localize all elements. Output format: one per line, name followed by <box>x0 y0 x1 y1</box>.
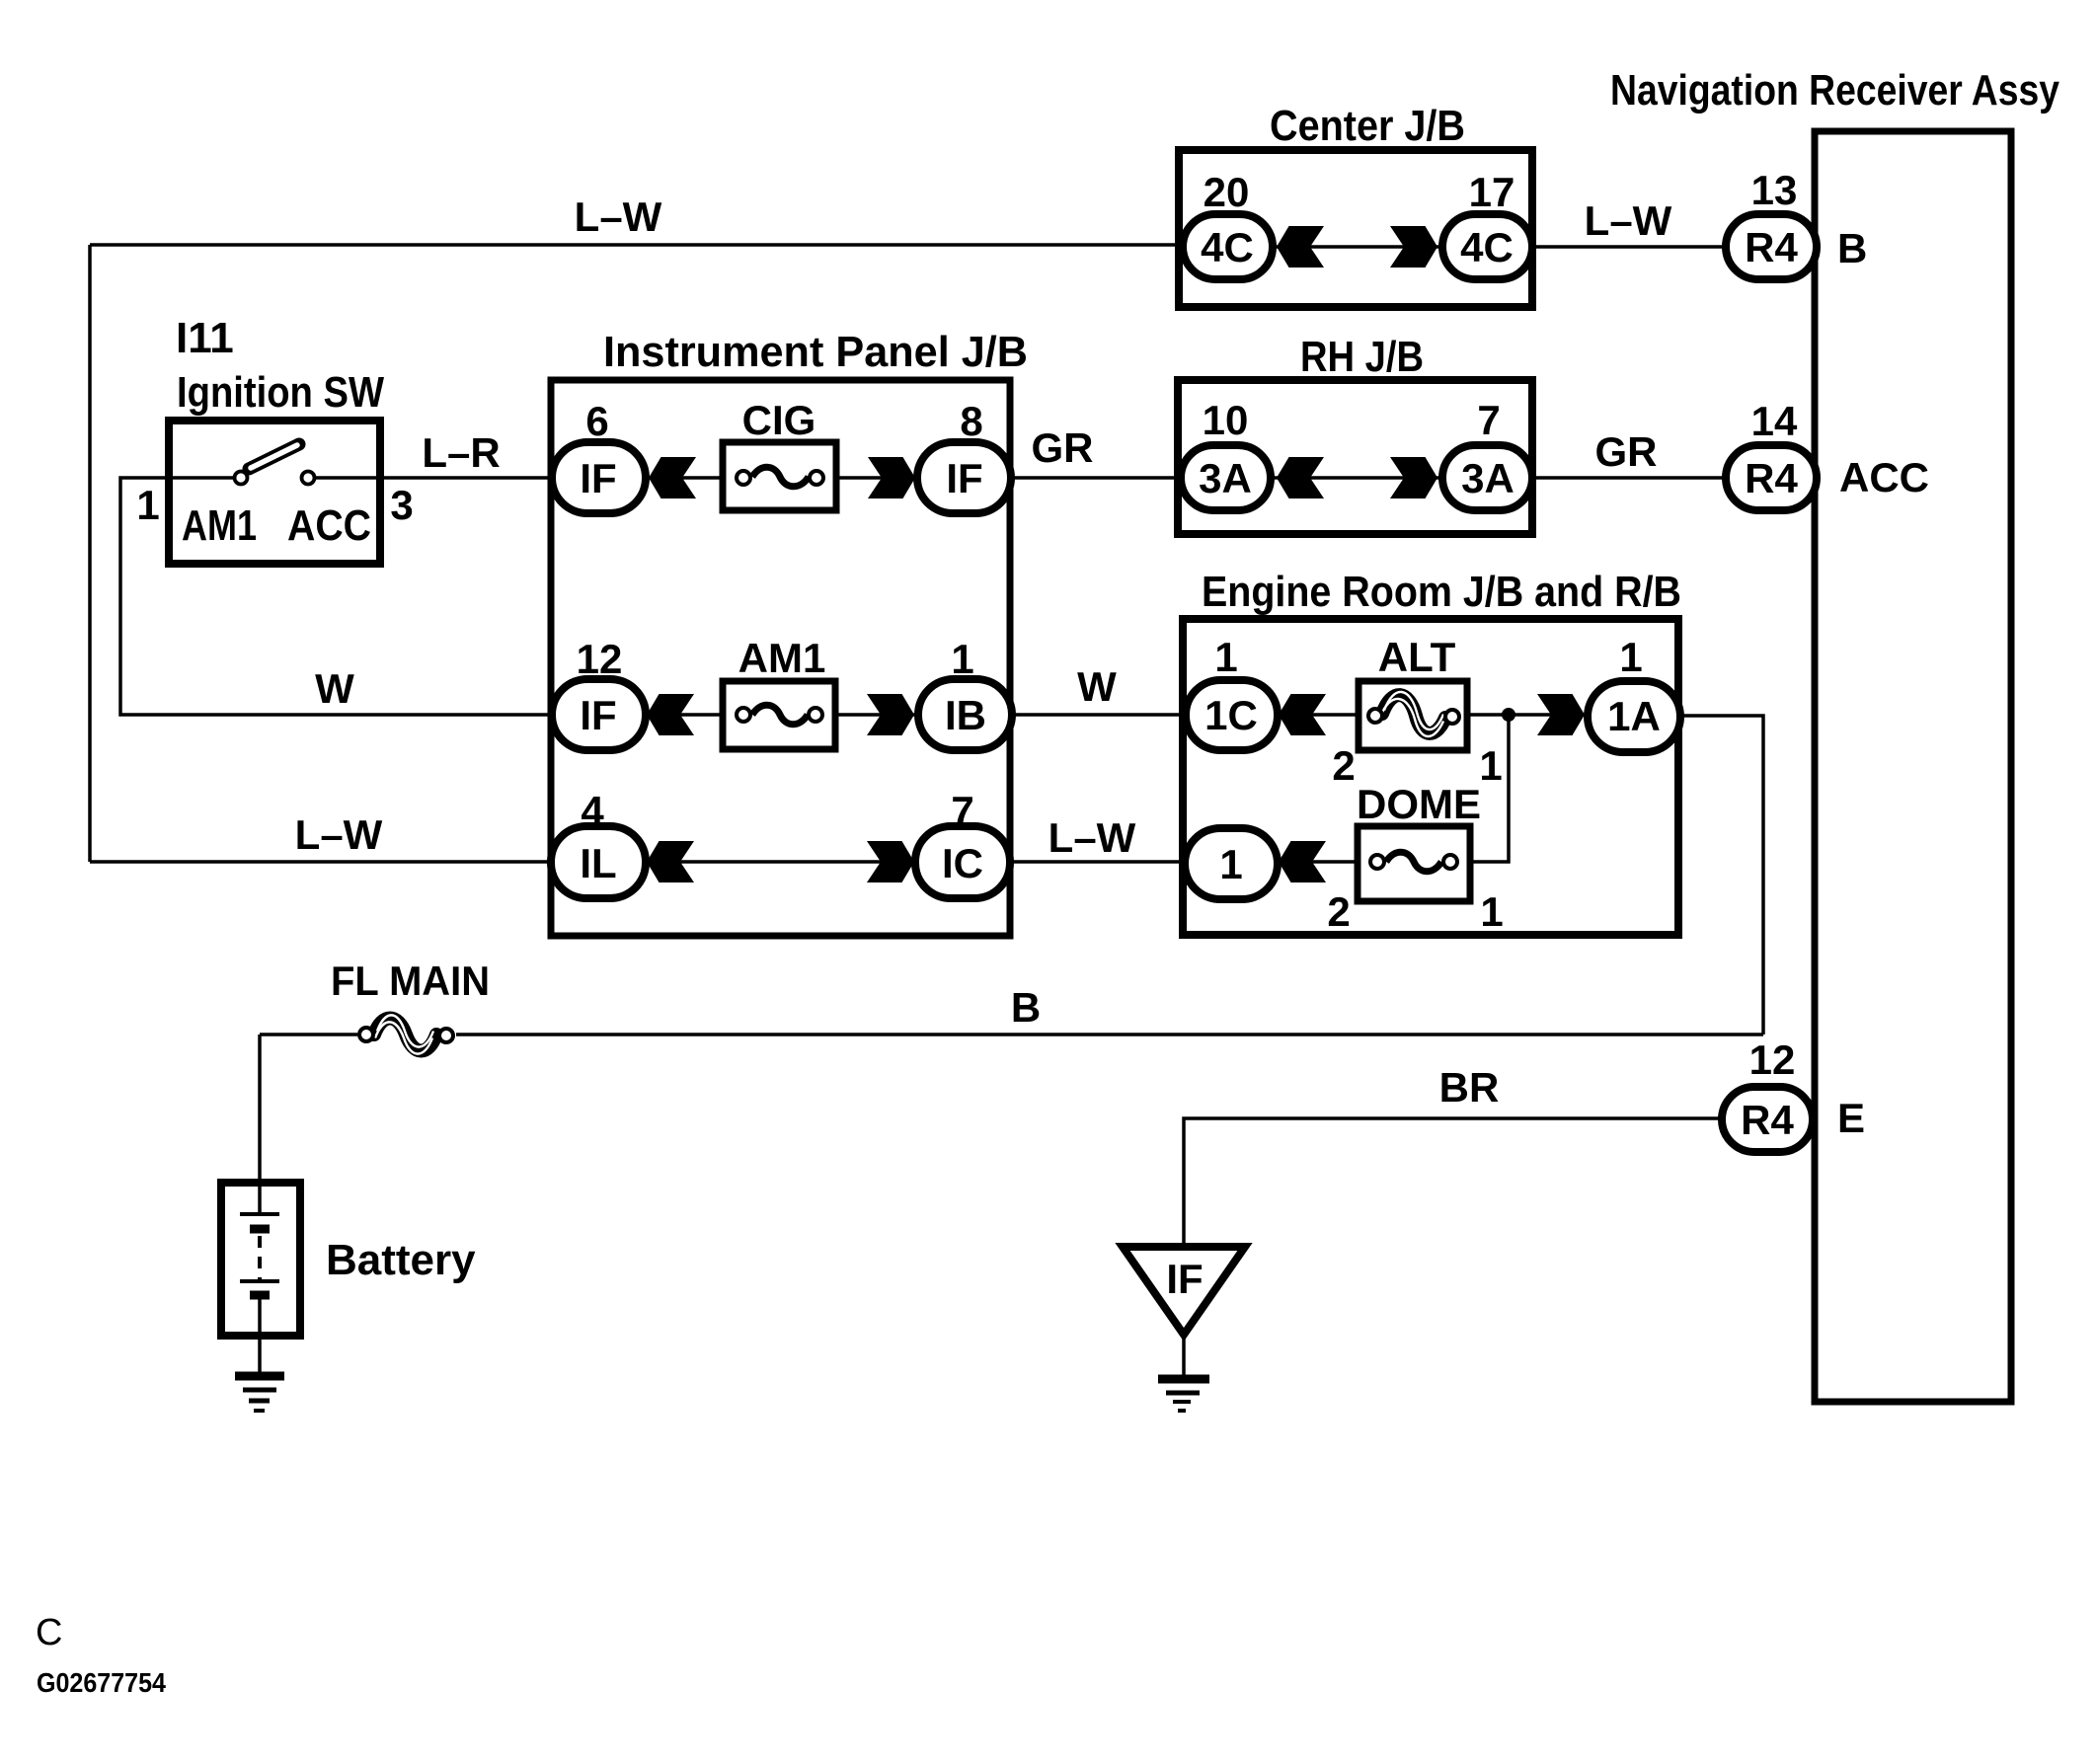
wire GR 3A7 to R4-14 <box>1530 476 1728 480</box>
wire 1A output to vertical drop <box>1678 716 1763 1035</box>
center J/B box <box>1179 150 1532 307</box>
svg-text:W: W <box>315 665 354 712</box>
arrow right RH JB <box>1390 457 1437 499</box>
arrow left CIG row <box>649 457 696 499</box>
svg-text:B: B <box>1011 984 1041 1031</box>
navigation receiver assy box <box>1815 131 2011 1402</box>
fusible link FL MAIN <box>359 1015 453 1053</box>
arrow right IL row <box>867 841 914 882</box>
ignition switch I11 box <box>169 421 380 564</box>
fuse CIG element <box>737 467 823 487</box>
connector 1C pin 1 <box>1186 680 1278 750</box>
svg-text:1: 1 <box>1479 742 1502 789</box>
connector 3A pin 7 <box>1442 445 1532 510</box>
svg-text:8: 8 <box>960 398 982 444</box>
connector R4 pin 14 <box>1726 445 1817 510</box>
svg-text:ALT: ALT <box>1378 634 1456 680</box>
battery plate short bottom <box>250 1291 270 1300</box>
wire engine row 1C to 1A <box>1276 713 1590 717</box>
svg-text:E: E <box>1837 1095 1865 1141</box>
fuse DOME box <box>1358 826 1470 901</box>
ground symbol below IF triangle <box>1158 1379 1209 1411</box>
wire L-W 4C17 to R4-13 <box>1529 245 1728 249</box>
fuse DOME element <box>1370 852 1457 872</box>
wire RH JB row between 3A ovals <box>1269 476 1444 480</box>
connector R4 pin 13 <box>1726 214 1817 279</box>
svg-text:AM1: AM1 <box>182 501 257 550</box>
svg-text:RH J/B: RH J/B <box>1300 333 1424 381</box>
connector IL pin 4 <box>551 826 646 898</box>
connector 4C pin 17 <box>1442 214 1532 279</box>
connector 3A pin 10 <box>1181 445 1271 510</box>
connector IC pin 7 <box>915 826 1010 898</box>
svg-text:IF: IF <box>580 455 616 501</box>
arrow left IL row <box>647 841 694 882</box>
fuse AM1 element <box>737 705 822 725</box>
svg-text:4C: 4C <box>1460 224 1514 270</box>
ignition switch wire re-stub <box>169 476 380 480</box>
junction node (engine room) <box>1502 708 1515 722</box>
battery internal wire <box>258 1187 262 1213</box>
wire B battery feed left of FL MAIN <box>260 1033 357 1036</box>
svg-text:B: B <box>1837 225 1867 271</box>
arrow left RH JB <box>1277 457 1324 499</box>
arrow left engine dome row <box>1279 841 1326 882</box>
battery plate long bottom <box>240 1279 279 1283</box>
svg-text:C: C <box>36 1612 62 1653</box>
svg-text:L–R: L–R <box>422 429 500 476</box>
instrument panel J/B box <box>551 380 1010 936</box>
wire DOME row to junction riser <box>1276 715 1509 862</box>
wire B FL MAIN to receiver drop <box>456 1033 1763 1036</box>
wire battery positive drop <box>258 1035 262 1215</box>
svg-text:1: 1 <box>1214 634 1237 680</box>
svg-text:Navigation Receiver Assy: Navigation Receiver Assy <box>1610 66 2059 115</box>
connector 1A pin 1 <box>1588 681 1680 752</box>
wire L-W IC to engine 1 <box>1009 860 1187 864</box>
fusible link ALT element <box>1368 692 1459 736</box>
wire ignition pin1 to W row <box>120 478 555 715</box>
connector IB pin 1 <box>918 679 1012 750</box>
wire L-W top horizontal (node B feed) <box>90 243 1183 247</box>
wire battery negative to ground <box>258 1335 262 1378</box>
RH J/B box <box>1178 380 1532 534</box>
svg-text:1: 1 <box>136 482 159 528</box>
svg-text:I11: I11 <box>176 314 234 362</box>
svg-text:L–W: L–W <box>1048 814 1136 861</box>
arrow right CIG row <box>868 457 915 499</box>
fusible link ALT box <box>1359 681 1467 750</box>
svg-text:R4: R4 <box>1745 224 1798 270</box>
wire CIG row inside IPJB <box>642 476 920 480</box>
svg-text:4C: 4C <box>1201 224 1254 270</box>
svg-text:GR: GR <box>1032 424 1094 471</box>
svg-text:L–W: L–W <box>1585 197 1672 244</box>
connector 1 engine dome row <box>1185 828 1278 899</box>
connector IF pin 12 <box>552 679 646 750</box>
svg-text:IF: IF <box>1166 1256 1203 1302</box>
arrow right center JB <box>1390 226 1437 268</box>
svg-text:W: W <box>1077 663 1117 710</box>
ignition switch lever <box>249 444 299 469</box>
ground connector IF triangle <box>1123 1247 1245 1335</box>
svg-text:IF: IF <box>580 692 616 738</box>
svg-text:20: 20 <box>1204 169 1250 215</box>
arrow right engine 1A <box>1537 694 1585 735</box>
wire GR IF8 to 3A10 <box>1009 476 1185 480</box>
connector R4 pin 12 <box>1722 1087 1813 1152</box>
svg-text:IL: IL <box>580 840 616 886</box>
svg-text:1: 1 <box>951 636 973 682</box>
svg-text:R4: R4 <box>1745 455 1798 501</box>
svg-text:ACC: ACC <box>287 501 371 550</box>
svg-text:14: 14 <box>1751 398 1798 444</box>
svg-text:CIG: CIG <box>742 397 816 443</box>
wire left vertical L-W <box>88 245 92 862</box>
svg-text:Center J/B: Center J/B <box>1270 102 1465 150</box>
svg-text:G02677754: G02677754 <box>37 1667 166 1698</box>
wire ignition box left stub <box>169 476 234 480</box>
ground symbol below battery <box>235 1376 284 1411</box>
ignition switch contact AM1 (pin 1) <box>235 472 248 485</box>
svg-text:13: 13 <box>1751 167 1798 213</box>
svg-text:AM1: AM1 <box>738 635 826 681</box>
arrow left engine 1C <box>1279 694 1326 735</box>
svg-text:1: 1 <box>1480 888 1503 935</box>
svg-text:6: 6 <box>585 398 608 444</box>
svg-text:12: 12 <box>577 636 623 682</box>
battery internal wire bottom <box>258 1299 262 1332</box>
battery dashed center line <box>258 1236 262 1279</box>
arrow left AM1 row <box>647 694 694 735</box>
svg-text:R4: R4 <box>1741 1097 1794 1143</box>
fuse AM1 box <box>723 681 835 749</box>
svg-text:Engine Room J/B and R/B: Engine Room J/B and R/B <box>1202 568 1681 616</box>
svg-text:1: 1 <box>1219 841 1242 887</box>
battery plate short top <box>250 1225 270 1234</box>
wire BR ground run <box>1184 1118 1722 1247</box>
svg-text:3A: 3A <box>1199 455 1252 501</box>
fuse CIG box <box>723 442 836 510</box>
svg-text:L–W: L–W <box>295 811 383 858</box>
svg-text:4: 4 <box>581 788 604 834</box>
svg-text:10: 10 <box>1203 397 1249 443</box>
svg-text:1: 1 <box>1619 634 1642 680</box>
svg-text:IF: IF <box>946 455 982 501</box>
battery plate long top <box>240 1212 279 1216</box>
wire L-W lower left to IL <box>90 860 555 864</box>
svg-text:7: 7 <box>1477 397 1500 443</box>
wire IL row inside IPJB <box>642 860 918 864</box>
svg-text:FL MAIN: FL MAIN <box>331 958 490 1004</box>
battery box <box>221 1183 300 1336</box>
svg-text:2: 2 <box>1327 888 1350 935</box>
svg-text:1A: 1A <box>1607 693 1661 739</box>
ignition switch contact ACC (pin 3) <box>302 472 315 485</box>
svg-text:IC: IC <box>942 840 983 886</box>
arrow right AM1 row <box>867 694 914 735</box>
connector IF pin 6 <box>552 442 646 513</box>
svg-text:L–W: L–W <box>575 193 662 240</box>
svg-text:IB: IB <box>945 692 986 738</box>
svg-text:3A: 3A <box>1461 455 1514 501</box>
svg-text:7: 7 <box>951 788 973 834</box>
wire AM1 row inside IPJB <box>642 713 920 717</box>
svg-text:1C: 1C <box>1204 692 1258 738</box>
svg-text:Ignition SW: Ignition SW <box>177 368 384 417</box>
svg-text:BR: BR <box>1439 1064 1500 1111</box>
svg-text:DOME: DOME <box>1357 781 1481 827</box>
svg-text:3: 3 <box>390 482 413 528</box>
wire L-R switch to IF6 <box>316 476 555 480</box>
svg-text:Instrument Panel J/B: Instrument Panel J/B <box>603 328 1028 376</box>
svg-text:12: 12 <box>1749 1036 1796 1083</box>
svg-text:ACC: ACC <box>1839 454 1929 500</box>
svg-text:Battery: Battery <box>326 1236 476 1284</box>
wire IF triangle to ground <box>1182 1333 1186 1378</box>
engine room J/B and R/B box <box>1183 619 1678 935</box>
svg-text:2: 2 <box>1332 742 1355 789</box>
connector IF pin 8 <box>917 442 1011 513</box>
svg-text:17: 17 <box>1469 169 1515 215</box>
connector 4C pin 20 <box>1183 214 1273 279</box>
arrow left center JB <box>1277 226 1324 268</box>
wire Center JB row between 4C ovals <box>1271 245 1443 249</box>
wire W IB to 1C <box>1010 713 1188 717</box>
svg-text:GR: GR <box>1595 428 1658 475</box>
